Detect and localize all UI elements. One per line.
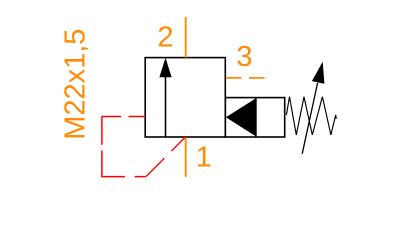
svg-text:2: 2 <box>157 22 173 54</box>
svg-text:1: 1 <box>196 141 212 173</box>
svg-text:3: 3 <box>236 41 252 73</box>
svg-text:M22x1,5: M22x1,5 <box>59 29 91 140</box>
